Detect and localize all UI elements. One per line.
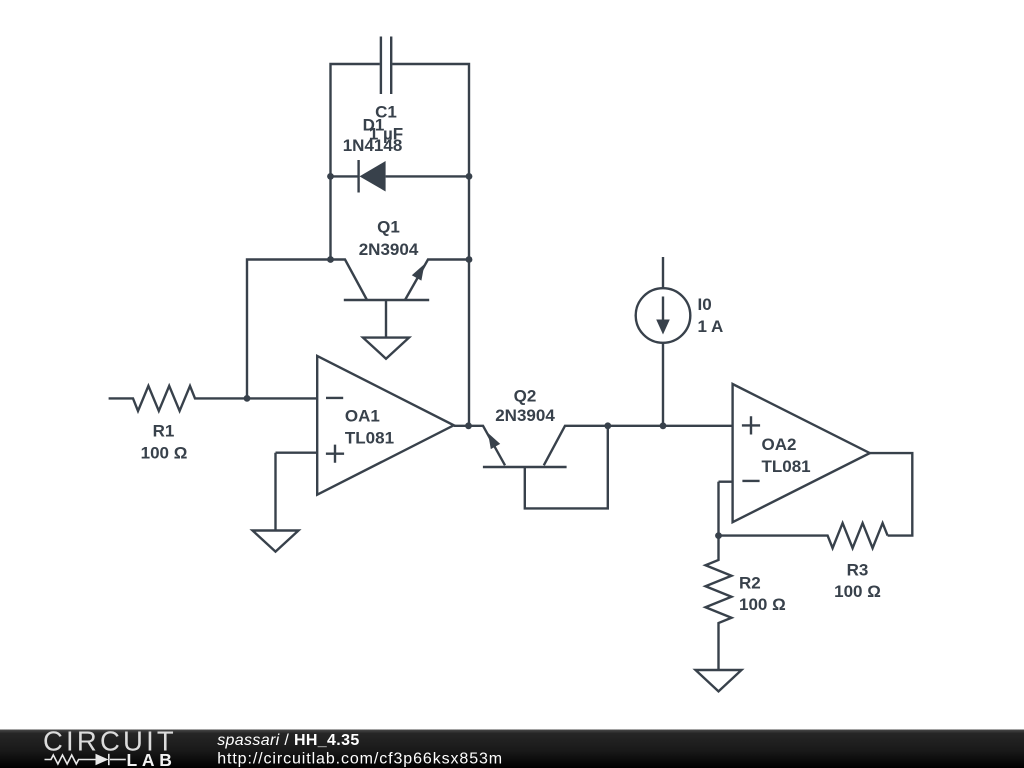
svg-text:100 Ω: 100 Ω: [739, 595, 786, 614]
svg-text:http://circuitlab.com/cf3p66ks: http://circuitlab.com/cf3p66ksx853m: [217, 750, 503, 767]
svg-text:2N3904: 2N3904: [359, 240, 419, 259]
svg-text:100 Ω: 100 Ω: [834, 582, 881, 601]
svg-text:spassari / HH_4.35: spassari / HH_4.35: [217, 732, 359, 749]
svg-text:1N4148: 1N4148: [343, 136, 403, 155]
svg-text:OA1: OA1: [345, 406, 380, 425]
svg-text:TL081: TL081: [762, 457, 811, 476]
svg-text:Q1: Q1: [377, 217, 400, 236]
svg-text:OA2: OA2: [762, 435, 797, 454]
svg-text:I0: I0: [698, 295, 712, 314]
svg-text:R1: R1: [153, 422, 175, 441]
svg-text:TL081: TL081: [345, 429, 394, 448]
svg-text:Q2: Q2: [514, 386, 537, 405]
svg-text:100 Ω: 100 Ω: [141, 443, 188, 462]
svg-text:R2: R2: [739, 574, 761, 593]
svg-text:R3: R3: [847, 561, 869, 580]
svg-text:D1: D1: [363, 115, 385, 134]
svg-text:1 A: 1 A: [698, 317, 724, 336]
svg-text:LAB: LAB: [127, 750, 177, 768]
svg-text:2N3904: 2N3904: [495, 406, 555, 425]
